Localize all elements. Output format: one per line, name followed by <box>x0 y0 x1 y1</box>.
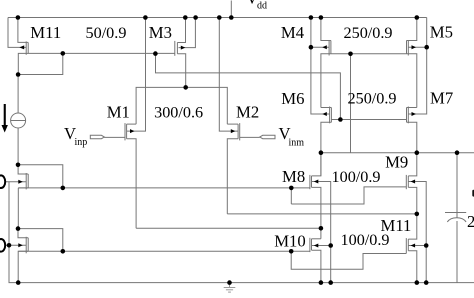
svg-text:250/0.9: 250/0.9 <box>348 89 397 107</box>
svg-text:M3: M3 <box>149 23 172 42</box>
svg-text:inp: inp <box>75 137 88 148</box>
svg-text:M11: M11 <box>30 23 61 42</box>
svg-text:M1: M1 <box>107 103 130 122</box>
svg-text:M2: M2 <box>236 103 259 122</box>
svg-text:M9: M9 <box>385 153 408 172</box>
svg-text:M5: M5 <box>430 22 453 41</box>
svg-text:100/0.9: 100/0.9 <box>332 168 381 186</box>
svg-text:100/0.9: 100/0.9 <box>341 231 390 249</box>
svg-text:M10: M10 <box>274 232 306 251</box>
svg-text:M8: M8 <box>282 167 305 186</box>
svg-text:50/0.9: 50/0.9 <box>86 24 127 42</box>
svg-text:inm: inm <box>289 138 305 149</box>
svg-text:M7: M7 <box>430 89 453 108</box>
svg-text:250/0.9: 250/0.9 <box>344 24 393 42</box>
svg-text:2: 2 <box>467 212 474 231</box>
svg-text:M6: M6 <box>281 89 304 108</box>
svg-text:M4: M4 <box>281 23 305 42</box>
svg-text:dd: dd <box>257 1 267 12</box>
svg-text:300/0.6: 300/0.6 <box>154 104 203 122</box>
